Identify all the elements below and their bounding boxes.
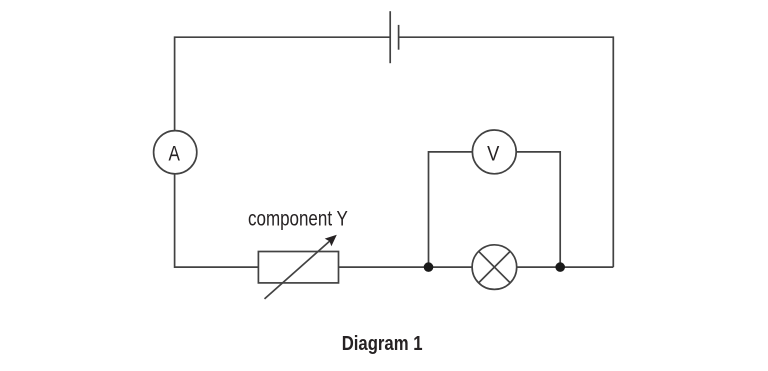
variable resistor Y body xyxy=(258,252,338,283)
wire voltmeter branch right xyxy=(516,152,560,267)
wire left lower segment xyxy=(175,174,259,267)
lamp L1 xyxy=(472,245,517,290)
ammeter U1 circle xyxy=(154,131,197,174)
node junction left xyxy=(424,262,434,272)
wire top-right segment xyxy=(399,37,614,267)
wire top-left segment xyxy=(175,37,390,131)
variable resistor Y arrow shaft xyxy=(265,241,330,299)
wire from component Y to lamp xyxy=(339,266,473,268)
battery cell xyxy=(390,11,398,63)
svg-text:V: V xyxy=(487,143,499,166)
voltmeter U2 circle xyxy=(472,130,516,174)
variable resistor Y arrowhead xyxy=(325,235,337,247)
svg-text:A: A xyxy=(169,143,180,166)
svg-text:component Y: component Y xyxy=(248,208,348,231)
wire lamp right to bottom-right corner xyxy=(517,266,614,268)
svg-text:Diagram 1: Diagram 1 xyxy=(342,333,423,355)
node junction right xyxy=(555,262,565,272)
wire voltmeter branch left xyxy=(429,152,473,267)
